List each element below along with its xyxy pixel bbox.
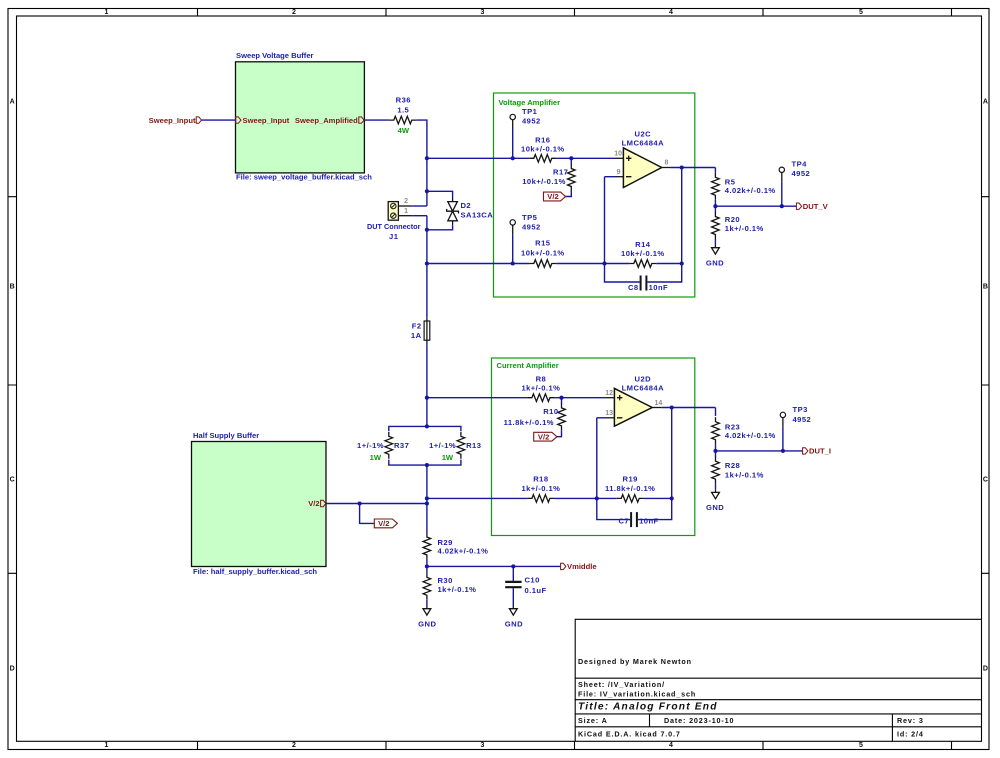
svg-text:F2: F2 — [412, 322, 422, 331]
svg-text:10k+/-0.1%: 10k+/-0.1% — [521, 145, 565, 154]
svg-text:TP3: TP3 — [793, 405, 808, 414]
wire VA input row — [427, 157, 529, 159]
wire to V2 row — [426, 498, 428, 503]
svg-text:4952: 4952 — [793, 415, 812, 424]
svg-text:Sweep Voltage Buffer: Sweep Voltage Buffer — [236, 51, 314, 60]
wire fuse to R8 row — [426, 344, 428, 397]
svg-text:5: 5 — [859, 9, 863, 16]
resistor R8 — [521, 375, 560, 402]
svg-text:4.02k+/-0.1%: 4.02k+/-0.1% — [725, 186, 776, 195]
wire feedback right vertical — [648, 168, 682, 283]
svg-text:1k+/-0.1%: 1k+/-0.1% — [521, 484, 560, 493]
title block outline — [575, 619, 981, 741]
TVS diode D2 — [447, 197, 494, 226]
wire junction to R10 — [561, 398, 563, 404]
svg-text:A: A — [10, 99, 15, 106]
title block column dividers — [650, 714, 893, 741]
svg-text:J1: J1 — [389, 232, 399, 241]
wire feedback right vertical — [638, 408, 672, 520]
svg-text:D: D — [983, 666, 988, 673]
svg-text:4: 4 — [669, 742, 673, 749]
sheet pin Sweep_Amplified — [295, 116, 364, 125]
wire Sweep_Input to sheet — [202, 119, 236, 121]
wire feedback left vertical — [605, 177, 640, 282]
svg-text:8: 8 — [665, 160, 669, 167]
global label V/2 (VA) — [544, 192, 566, 201]
wire R16 to opamp — [556, 157, 615, 159]
svg-text:3: 3 — [481, 9, 485, 16]
svg-text:R8: R8 — [536, 375, 547, 384]
svg-text:Designed by Marek Newton: Designed by Marek Newton — [578, 657, 692, 666]
svg-text:2: 2 — [292, 742, 296, 749]
wire minus input — [597, 417, 606, 419]
junction feedback left — [602, 261, 606, 265]
wire to parallel resistors — [426, 398, 428, 427]
wire R28 to gnd — [715, 484, 717, 490]
wire out to R23 — [715, 408, 717, 417]
svg-text:1.5: 1.5 — [397, 105, 409, 114]
junction DUT_I node — [713, 449, 717, 453]
wire DUT_I row — [716, 450, 803, 452]
svg-text:Sweep_Input: Sweep_Input — [149, 116, 196, 125]
resistor R19 — [605, 475, 655, 503]
svg-text:R10: R10 — [543, 407, 558, 416]
svg-text:R17: R17 — [553, 168, 568, 177]
sheet pin Sweep_Input — [236, 116, 290, 125]
svg-text:Vmiddle: Vmiddle — [567, 562, 597, 571]
svg-text:10k+/-0.1%: 10k+/-0.1% — [521, 248, 565, 257]
wire main vertical to D2 node — [426, 158, 428, 191]
fuse F2 — [411, 318, 430, 345]
test point TP5 — [510, 213, 541, 264]
wire main vertical to R15 row — [426, 230, 428, 264]
hierarchical label DUT_I — [803, 447, 831, 456]
wire D2 top branch — [427, 191, 453, 196]
junction parallel bottom — [425, 463, 429, 467]
svg-text:5: 5 — [859, 742, 863, 749]
svg-text:4W: 4W — [398, 126, 410, 135]
resistor R29 — [423, 533, 488, 560]
svg-text:2: 2 — [404, 198, 408, 205]
wire R5 to junction — [714, 200, 716, 213]
column ticks top — [198, 9, 952, 17]
svg-text:11.8k+/-0.1%: 11.8k+/-0.1% — [504, 418, 554, 427]
ground CA output — [706, 489, 724, 512]
svg-text:D2: D2 — [461, 201, 472, 210]
wire opamp out — [671, 167, 716, 169]
svg-text:B: B — [10, 284, 15, 291]
svg-text:1k+/-0.1%: 1k+/-0.1% — [725, 224, 764, 233]
hierarchical label DUT_V — [796, 202, 828, 211]
junction V2 row — [425, 501, 429, 505]
VOUT — [706, 160, 829, 268]
junction R14 right — [680, 261, 684, 265]
svg-text:Size: A: Size: A — [578, 716, 608, 725]
CAMP — [427, 358, 716, 536]
svg-text:Date: 2023-10-10: Date: 2023-10-10 — [664, 716, 734, 725]
svg-text:2: 2 — [292, 9, 296, 16]
capacitor C10 — [505, 566, 546, 605]
svg-text:C10: C10 — [525, 576, 540, 585]
svg-text:Current Amplifier: Current Amplifier — [497, 361, 559, 370]
svg-text:13: 13 — [605, 410, 613, 417]
junction Vmiddle left — [425, 564, 429, 568]
voltage amplifier group box — [494, 93, 695, 297]
resistor R18 — [521, 475, 560, 503]
wire R29 to Vmiddle row — [426, 560, 428, 573]
hierarchical label Vmiddle — [561, 562, 597, 571]
resistor R13 — [429, 432, 481, 462]
svg-text:V/2: V/2 — [547, 192, 558, 201]
wire junction to R17 — [570, 158, 572, 164]
svg-text:Sweep_Amplified: Sweep_Amplified — [295, 116, 358, 125]
junction R15 row — [425, 261, 429, 265]
hierarchical sheet Sweep Voltage Buffer — [236, 51, 373, 182]
resistor R30 — [423, 573, 476, 600]
wire D2 bottom branch — [427, 225, 453, 230]
svg-text:4952: 4952 — [522, 117, 541, 126]
test point TP3 — [780, 405, 811, 451]
svg-text:GND: GND — [418, 619, 436, 628]
junction R8 row — [425, 396, 429, 400]
wire minus input — [605, 176, 616, 178]
svg-text:DUT_V: DUT_V — [803, 202, 829, 211]
wire stub to V/2 global label — [360, 504, 375, 524]
svg-text:Sheet: /IV_Variation/: Sheet: /IV_Variation/ — [578, 680, 665, 689]
resistor R15 — [521, 239, 565, 268]
svg-text:Id: 2/4: Id: 2/4 — [897, 729, 924, 738]
title block row lines — [575, 678, 981, 727]
svg-text:1: 1 — [105, 742, 109, 749]
svg-text:LMC6484A: LMC6484A — [622, 138, 664, 147]
svg-text:R14: R14 — [635, 240, 651, 249]
junction R10 top — [559, 396, 563, 400]
column ticks bottom — [198, 741, 952, 749]
svg-text:10k+/-0.1%: 10k+/-0.1% — [621, 249, 665, 258]
svg-text:11.8k+/-0.1%: 11.8k+/-0.1% — [605, 484, 655, 493]
resistor R28 — [712, 457, 764, 484]
svg-text:R30: R30 — [438, 576, 453, 585]
wire to R29 — [426, 504, 428, 533]
svg-text:DUT_I: DUT_I — [809, 447, 831, 456]
wire R10 to V2 — [557, 430, 562, 436]
svg-text:File: half_supply_buffer.kicad: File: half_supply_buffer.kicad_sch — [193, 567, 317, 576]
svg-text:TP5: TP5 — [522, 213, 538, 222]
wire R19 right — [644, 497, 672, 499]
svg-text:1A: 1A — [411, 331, 422, 340]
svg-text:C8: C8 — [628, 283, 639, 292]
resistor R14 — [621, 240, 665, 267]
svg-text:4952: 4952 — [792, 169, 811, 178]
junction feedback left — [595, 496, 599, 500]
wire R20 to gnd — [714, 239, 716, 245]
svg-text:R29: R29 — [438, 538, 453, 547]
wire R18 row — [427, 497, 528, 499]
resistor R17 — [522, 164, 575, 191]
svg-text:10k+/-0.1%: 10k+/-0.1% — [522, 177, 566, 186]
wire opamp out — [662, 407, 716, 409]
svg-text:R19: R19 — [623, 475, 638, 484]
svg-text:10nF: 10nF — [649, 283, 669, 292]
wire R17 to V2 — [566, 191, 572, 197]
svg-text:4.02k+/-0.1%: 4.02k+/-0.1% — [438, 547, 489, 556]
svg-text:TP4: TP4 — [792, 160, 808, 169]
wire R8 row — [427, 397, 528, 399]
resistor R5 — [712, 173, 776, 200]
ground C10 — [505, 606, 523, 629]
svg-text:1W: 1W — [442, 453, 454, 462]
svg-text:R28: R28 — [725, 461, 740, 470]
svg-text:File: sweep_voltage_buffer.kic: File: sweep_voltage_buffer.kicad_sch — [236, 173, 372, 182]
wire junction to J1 pin2 — [426, 191, 428, 206]
wire out to R5 — [714, 168, 716, 173]
wire J1 pin2 to vertical — [412, 205, 427, 207]
svg-text:1: 1 — [404, 208, 408, 215]
svg-text:U2D: U2D — [635, 375, 652, 384]
svg-text:R13: R13 — [466, 441, 481, 450]
global label V/2 (CA) — [534, 432, 557, 441]
svg-text:Title: Analog Front End: Title: Analog Front End — [578, 702, 718, 713]
capacitor C8 — [628, 276, 668, 293]
junction DUT_V node — [713, 204, 717, 208]
junction V/2 stub — [358, 501, 362, 505]
resistor R36 — [389, 96, 416, 135]
svg-text:U2C: U2C — [635, 130, 652, 139]
svg-text:9: 9 — [617, 169, 621, 176]
svg-text:V/2: V/2 — [378, 519, 389, 528]
svg-text:0.1uF: 0.1uF — [525, 586, 547, 595]
junction D2 bottom — [425, 228, 429, 232]
resistor R23 — [712, 417, 776, 444]
svg-text:14: 14 — [655, 400, 663, 407]
junction TP1 — [511, 156, 515, 160]
resistor R16 — [521, 136, 565, 162]
wire parallel top rail — [389, 426, 461, 431]
wire Vmiddle row — [427, 565, 561, 567]
resistor R37 — [357, 432, 409, 462]
svg-text:LMC6484A: LMC6484A — [622, 384, 664, 393]
svg-text:V/2: V/2 — [308, 499, 319, 508]
wire R30 to gnd — [426, 600, 428, 606]
svg-text:C: C — [10, 477, 15, 484]
svg-text:DUT Connector: DUT Connector — [367, 222, 421, 231]
wire R15 to R14 — [556, 263, 629, 265]
wire R8 to opamp — [554, 397, 605, 399]
ground VA output — [706, 245, 724, 268]
resistor R10 — [504, 403, 566, 430]
svg-text:SA13CA: SA13CA — [461, 211, 494, 220]
current amplifier group box — [492, 358, 695, 536]
svg-text:V/2: V/2 — [538, 432, 549, 441]
svg-text:1W: 1W — [370, 453, 382, 462]
svg-text:GND: GND — [505, 619, 523, 628]
hierarchical label Sweep_Input — [149, 116, 202, 125]
wire parallel bottom rail — [389, 460, 461, 466]
svg-text:GND: GND — [706, 503, 724, 512]
wire R18 to R19 — [554, 497, 616, 499]
global label V/2 (half supply) — [374, 519, 397, 528]
junction R19 right — [670, 496, 674, 500]
svg-text:1+/-1%: 1+/-1% — [429, 441, 456, 450]
svg-text:Voltage Amplifier: Voltage Amplifier — [499, 98, 561, 107]
junction TP4 — [780, 204, 784, 208]
junction D2 top — [425, 189, 429, 193]
svg-text:3: 3 — [481, 742, 485, 749]
svg-text:Sweep_Input: Sweep_Input — [243, 116, 290, 125]
SHEETS — [149, 51, 427, 576]
node junction VA input — [425, 156, 429, 160]
op-amp U2C — [614, 130, 670, 188]
svg-text:1k+/-0.1%: 1k+/-0.1% — [438, 585, 477, 594]
svg-text:R20: R20 — [725, 215, 740, 224]
wire feedback left vertical — [597, 418, 630, 520]
wire R15 row — [427, 263, 529, 265]
svg-text:10: 10 — [614, 150, 622, 157]
svg-text:C: C — [983, 477, 988, 484]
svg-text:GND: GND — [706, 259, 724, 268]
MAINWIRES — [357, 96, 493, 533]
wire J1 pin1 down — [426, 216, 428, 230]
junction U2C out — [680, 165, 684, 169]
svg-text:4: 4 — [669, 9, 673, 16]
junction parallel top — [425, 424, 429, 428]
wire to R18 row — [426, 465, 428, 498]
hierarchical sheet Half Supply Buffer — [192, 431, 327, 576]
wire DUT_V row — [715, 205, 796, 207]
wire main vertical to fuse — [426, 264, 428, 318]
svg-text:Half Supply Buffer: Half Supply Buffer — [193, 431, 259, 440]
test point TP4 — [779, 160, 810, 207]
svg-text:1+/-1%: 1+/-1% — [357, 441, 384, 450]
wire R14 right — [656, 263, 681, 265]
svg-text:R36: R36 — [396, 96, 411, 105]
svg-text:1k+/-0.1%: 1k+/-0.1% — [725, 470, 764, 479]
wire R23 to junction — [715, 444, 717, 457]
junction R18 row — [425, 496, 429, 500]
svg-text:KiCad E.D.A. kicad 7.0.7: KiCad E.D.A. kicad 7.0.7 — [578, 729, 681, 738]
TITLEBLOCK — [575, 619, 981, 741]
svg-text:1: 1 — [105, 9, 109, 16]
svg-text:4952: 4952 — [522, 223, 541, 232]
resistor R20 — [712, 212, 764, 239]
svg-text:B: B — [983, 284, 988, 291]
junction C10 — [511, 564, 515, 568]
svg-text:C7: C7 — [618, 517, 629, 526]
svg-text:12: 12 — [605, 390, 613, 397]
svg-text:D: D — [10, 666, 15, 673]
svg-text:R37: R37 — [394, 441, 409, 450]
op-amp U2D — [605, 375, 664, 427]
svg-text:Rev: 3: Rev: 3 — [897, 716, 924, 725]
junction TP5 — [511, 261, 515, 265]
COUT — [706, 405, 831, 512]
svg-text:File: IV_variation.kicad_sch: File: IV_variation.kicad_sch — [578, 690, 696, 699]
HALFSUPPLY — [418, 533, 596, 629]
wire sheet to R36 — [364, 119, 389, 121]
capacitor C7 — [618, 512, 658, 527]
row ticks left — [8, 197, 17, 574]
svg-text:R15: R15 — [535, 239, 551, 248]
junction U2D out — [670, 405, 674, 409]
wire J1 pin1 to vertical — [412, 215, 427, 217]
ground R30 — [418, 606, 436, 629]
wire R36 to main vertical — [416, 120, 427, 158]
row ticks right — [982, 197, 990, 574]
svg-text:A: A — [983, 99, 988, 106]
svg-text:10nF: 10nF — [639, 517, 659, 526]
svg-text:TP1: TP1 — [522, 107, 538, 116]
svg-text:1k+/-0.1%: 1k+/-0.1% — [521, 384, 560, 393]
test point TP1 — [510, 107, 541, 158]
junction R17 top — [569, 156, 573, 160]
junction TP3 — [781, 449, 785, 453]
wire V/2 sheet to main vertical — [326, 503, 427, 505]
svg-text:R16: R16 — [535, 136, 550, 145]
connector J1 — [367, 198, 421, 241]
VAMP — [427, 93, 716, 297]
sheet pin V/2 — [308, 499, 326, 508]
svg-text:4.02k+/-0.1%: 4.02k+/-0.1% — [725, 431, 776, 440]
svg-text:R18: R18 — [533, 475, 548, 484]
